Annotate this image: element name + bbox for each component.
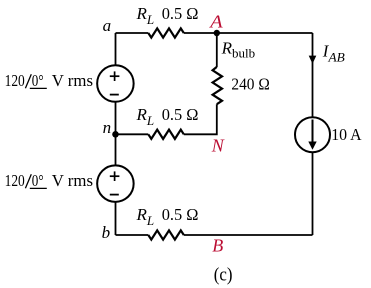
svg-text:b: b xyxy=(102,223,111,242)
resistor RL middle zigzag xyxy=(148,130,184,139)
wire left rail upper (a corner to V1 top) xyxy=(115,33,117,66)
V2 minus sign xyxy=(110,194,119,196)
resistor RL top zigzag xyxy=(148,28,184,37)
voltage source V2 circle xyxy=(97,165,133,202)
current source circle xyxy=(295,117,330,152)
wire right rail lower (current source to bottom corner) xyxy=(312,152,314,235)
V2 value label 120/0 deg V rms xyxy=(5,171,93,190)
resistor RL bottom zigzag xyxy=(148,230,184,239)
svg-text:n: n xyxy=(103,118,112,137)
svg-text:B: B xyxy=(212,236,223,256)
V2 plus sign xyxy=(110,171,120,181)
svg-text:(c): (c) xyxy=(214,265,233,285)
V1 value label 120/0 deg V rms xyxy=(5,71,93,90)
voltage source V1 circle xyxy=(97,65,133,102)
wire R_bulb branch upper (A down to resistor) xyxy=(216,33,218,67)
svg-text:240 Ω: 240 Ω xyxy=(231,75,269,94)
wire top (a to A to top-right corner) xyxy=(116,32,313,34)
wire bottom (b to B to bottom-right corner) xyxy=(116,234,313,236)
V1 plus sign xyxy=(110,71,120,81)
svg-text:0.5 Ω: 0.5 Ω xyxy=(162,4,199,23)
node n junction dot xyxy=(112,131,119,138)
svg-text:0.5 Ω: 0.5 Ω xyxy=(162,105,199,124)
resistor 240 ohm vertical zigzag xyxy=(213,67,222,104)
svg-text:120: 120 xyxy=(5,171,25,190)
wire left rail lower (V2 bottom to b corner) xyxy=(115,202,117,235)
node A junction dot xyxy=(214,30,220,36)
svg-text:N: N xyxy=(211,136,225,156)
svg-text:V rms: V rms xyxy=(52,71,93,90)
wire left rail middle (V1 bottom through node n to V2 top) xyxy=(115,102,117,166)
svg-text:0°: 0° xyxy=(32,171,44,190)
svg-text:a: a xyxy=(103,16,112,35)
wire middle (n to N) xyxy=(116,104,217,134)
svg-text:A: A xyxy=(209,12,224,32)
svg-text:0°: 0° xyxy=(32,71,44,90)
svg-text:V rms: V rms xyxy=(52,171,93,190)
svg-text:10 A: 10 A xyxy=(331,125,362,144)
svg-text:0.5 Ω: 0.5 Ω xyxy=(162,205,199,224)
svg-text:120: 120 xyxy=(5,71,25,90)
I_AB arrowhead xyxy=(309,56,317,64)
wire right rail upper (top corner to current source) xyxy=(312,33,314,117)
current source arrow xyxy=(308,120,316,150)
V1 minus sign xyxy=(110,94,119,96)
